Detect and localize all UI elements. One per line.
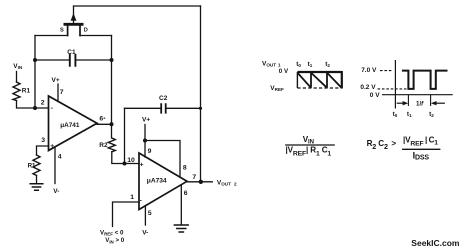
- svg-text:μA741: μA741: [60, 122, 80, 129]
- svg-text:3: 3: [41, 137, 45, 144]
- wire C2 left vertical: [124, 108, 126, 163]
- svg-text:8: 8: [183, 165, 187, 172]
- svg-text:VIN: VIN: [303, 135, 314, 146]
- dashed 7.0V level: [380, 70, 393, 72]
- capacitor C2 plates: [161, 104, 166, 113]
- svg-text:-: -: [51, 105, 53, 112]
- svg-text:0 V: 0 V: [370, 92, 380, 99]
- wire Vin lead: [16, 72, 18, 83]
- square wave trace: [402, 71, 448, 89]
- svg-text:VREF < 0: VREF < 0: [100, 229, 124, 236]
- ground below U2 pin6: [174, 225, 188, 232]
- capacitor C1 plates: [70, 55, 76, 66]
- svg-text:R1: R1: [28, 162, 36, 169]
- svg-text:V+: V+: [52, 77, 60, 84]
- op-amp U2 uA734 triangle: [139, 153, 187, 210]
- wire U2 pin9: [144, 141, 146, 158]
- svg-text:VREF: VREF: [270, 85, 284, 92]
- svg-text:μA734: μA734: [147, 177, 167, 184]
- svg-text:V-: V-: [142, 230, 148, 237]
- svg-text:t1: t1: [407, 111, 412, 118]
- svg-text:5: 5: [148, 210, 152, 217]
- transistor Q1 gate lead: [73, 7, 75, 23]
- svg-text:1/f: 1/f: [416, 101, 424, 108]
- svg-text:V+: V+: [142, 117, 150, 124]
- svg-text:10: 10: [127, 157, 135, 164]
- wire U2 pin1 to Vref: [113, 202, 140, 227]
- wire C2 horizontal right: [166, 107, 201, 109]
- eq1 fraction bar: [285, 144, 335, 146]
- svg-text:|VREF | C1: |VREF | C1: [403, 136, 438, 148]
- svg-text:t1: t1: [308, 61, 313, 68]
- wire R1b to ground: [36, 176, 38, 184]
- op-amp U1 uA741 triangle: [49, 96, 98, 151]
- square wave x axis: [382, 94, 453, 96]
- equation 1: Vin / |Vref| R1 C1: [285, 135, 335, 158]
- ground below R1b: [30, 184, 43, 190]
- wire U2 pin8: [145, 141, 180, 178]
- waveform 1 sawtooth: [297, 71, 341, 89]
- svg-text:+: +: [50, 143, 54, 150]
- wire right branch down to pin6 node: [111, 36, 113, 125]
- wire U2 pin6 to ground: [180, 185, 182, 225]
- sawtooth top line: [297, 71, 341, 73]
- dashed 0.2V level: [378, 88, 410, 90]
- svg-text:0.2 V: 0.2 V: [360, 84, 376, 91]
- wire R1 bottom to pin2 node: [17, 101, 49, 109]
- sawtooth dashed baseline: [297, 87, 341, 89]
- pin 6 U1 tick mark: [104, 118, 106, 119]
- wire left rail S-node down to pin2 node: [34, 36, 36, 109]
- svg-text:SeekIC.com: SeekIC.com: [411, 238, 460, 248]
- eq2 fraction bar: [402, 148, 440, 150]
- svg-text:|VREF| R1 C1: |VREF| R1 C1: [286, 145, 332, 157]
- node pin2 junction: [33, 106, 37, 110]
- wire U1 pin7 V+: [57, 84, 59, 102]
- transistor Q1 source lead: [67, 26, 69, 36]
- resistor R1 input zigzag: [13, 82, 20, 101]
- equation 2: R2 C2 > |Vref| C1 / Idss: [367, 136, 441, 162]
- svg-text:S: S: [60, 28, 64, 34]
- svg-text:VIN: VIN: [13, 63, 23, 70]
- wire pin6 node down to R2: [111, 124, 113, 138]
- wire C1 right: [75, 59, 111, 61]
- svg-text:9: 9: [148, 148, 152, 155]
- node C2 right corner: [199, 107, 202, 110]
- svg-text:7: 7: [60, 89, 64, 96]
- wire U1 pin4 V-: [54, 147, 56, 184]
- svg-text:-: -: [140, 197, 142, 204]
- wire right rail down to Vout2 node: [200, 6, 202, 182]
- svg-text:4: 4: [58, 154, 62, 161]
- svg-text:C1: C1: [67, 49, 76, 56]
- svg-text:V-: V-: [53, 188, 59, 195]
- svg-text:6: 6: [184, 190, 188, 197]
- node C1 right junction: [110, 58, 114, 62]
- sawtooth ramps: [298, 73, 342, 88]
- svg-text:IDSS: IDSS: [413, 150, 430, 161]
- wire C2 horizontal left: [125, 107, 162, 109]
- svg-text:R1: R1: [22, 88, 31, 95]
- node U2 V+ junction: [143, 139, 147, 143]
- wire U2 V+ lead: [144, 125, 146, 141]
- waveform 2 square: [378, 60, 453, 109]
- arrow to t1: [397, 102, 405, 104]
- wire R2 to pin10: [112, 152, 139, 164]
- svg-text:R2: R2: [99, 142, 108, 149]
- svg-text:7: 7: [192, 174, 196, 181]
- resistor R2 zigzag: [108, 138, 115, 152]
- wire U2 pin5 V-: [144, 206, 146, 225]
- sawtooth right edge: [341, 71, 343, 89]
- resistor R1 ground zigzag: [33, 155, 40, 176]
- svg-text:VIN > 0: VIN > 0: [105, 237, 125, 244]
- svg-text:7.0 V: 7.0 V: [361, 67, 377, 74]
- transistor Q1 gate arrow: [71, 13, 77, 21]
- svg-text:R2 C2 >: R2 C2 >: [367, 139, 397, 151]
- svg-text:t2: t2: [429, 111, 434, 118]
- node pin10 junction: [123, 162, 127, 166]
- t1 tick line: [407, 95, 409, 106]
- svg-text:VOUT2: VOUT2: [217, 179, 237, 186]
- svg-text:D: D: [84, 28, 88, 34]
- schematic text labels: [13, 28, 237, 245]
- svg-text:C2: C2: [159, 95, 168, 102]
- square wave y axis: [394, 60, 396, 109]
- svg-text:+: +: [140, 161, 144, 168]
- wire U1 pin6 output: [97, 123, 112, 125]
- wire drain to right branch: [80, 35, 112, 37]
- node C1 left junction: [33, 58, 37, 62]
- t2 tick line: [430, 95, 432, 106]
- svg-text:VOUT1: VOUT1: [262, 61, 281, 68]
- svg-text:1: 1: [130, 194, 134, 201]
- svg-text:0 V: 0 V: [279, 68, 289, 75]
- wire source to left rail: [35, 35, 68, 37]
- arrow to t2: [437, 102, 445, 104]
- wire gate to right rail: [74, 5, 201, 7]
- svg-text:2: 2: [41, 100, 45, 107]
- wire U1 pin3 to R1b: [37, 146, 49, 155]
- svg-text:t0: t0: [296, 61, 301, 68]
- sawtooth left edge: [296, 72, 298, 88]
- node Vout2 junction: [199, 180, 203, 184]
- transistor Q1 drain lead: [79, 26, 81, 36]
- svg-text:t2: t2: [325, 61, 330, 68]
- transistor Q1 JFET channel bar: [65, 23, 82, 26]
- wire C1 left: [35, 59, 70, 61]
- node pin6 junction: [110, 122, 114, 126]
- svg-text:6: 6: [99, 115, 103, 122]
- wire U2 output: [187, 181, 212, 183]
- svg-text:t0: t0: [393, 111, 398, 118]
